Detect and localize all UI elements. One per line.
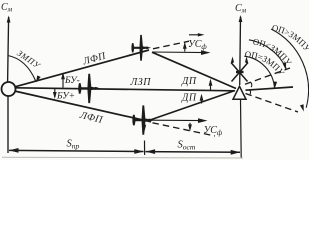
svg-text:ДП: ДП [181, 76, 197, 87]
wire: S boundary tick [144, 141, 146, 156]
wire: right S tick from triangle to baseline [240, 100, 243, 159]
svg-text:БУ-: БУ- [64, 76, 80, 86]
label: OP<ZMPU curved [253, 45, 290, 70]
arc: ZMPU angle arc with arrowhead [8, 56, 36, 81]
wire: lower corrected track plane to triangle [152, 91, 236, 120]
wire: dashed up-right from triangle [245, 68, 290, 84]
dimension: S pr [9, 150, 144, 151]
wire: vertical from circle to baseline [7, 96, 9, 153]
component: upper plane on LFP [131, 35, 151, 61]
wire: lower LFP line from circle to lower plane [15, 91, 152, 122]
svg-text:ЛЗП: ЛЗП [130, 77, 152, 88]
component: aircraft symbol at turn point (X with two arrows) [231, 63, 248, 82]
svg-text:БУ+: БУ+ [56, 92, 75, 102]
annotation: BU+ angle (arrow down to LFP, text, arrow up to LZP) [54, 89, 56, 98]
wire: upper horizontal reference with right arrow [152, 51, 206, 54]
arc: inner turn arc OP=ZMPU [244, 56, 274, 88]
label: OP>ZMPU curved [272, 31, 308, 55]
wire: dashed extension of upper LFP beyond plane [153, 41, 189, 49]
wire: upper corrected track plane to triangle [152, 52, 236, 88]
arc: outer turn arc OP>ZMPU [271, 29, 308, 108]
arrow: upper USf angle arrow [184, 44, 186, 52]
component: plane on LZP [78, 74, 100, 103]
faint scan rule at bottom [2, 156, 243, 159]
arrow: left Cm arrowhead [7, 15, 11, 22]
wire: lower horizontal reference with right arrow [153, 119, 204, 121]
arrow: lower USf angle arrow [189, 123, 191, 130]
wire: horizontal continuation right of triangle [246, 87, 294, 90]
node: destination triangle [233, 86, 246, 99]
node: departure point circle [2, 82, 16, 96]
component: lower plane on LFP [132, 105, 154, 134]
arc: middle turn arc OP<ZMPU [249, 40, 286, 69]
wire: dashed extension of lower LFP beyond plane [153, 123, 216, 136]
arc: small angle arc at triangle right [251, 82, 252, 87]
label: OP=ZMPU curved [245, 57, 279, 74]
wire: left meridian line (Cm) [8, 17, 9, 82]
wire: dashed down-right from triangle with arrow [246, 94, 299, 113]
arrow: drop from lower plane to S boundary tick [143, 123, 145, 130]
wire: upper LFP line from circle to upper plane [15, 50, 150, 87]
label: USf upper with vector arrow [189, 34, 202, 36]
annotation: BU- angle (arrow up to LFP, text, arrow down to LZP) [62, 74, 64, 88]
wire: LZP horizontal line [16, 88, 235, 91]
wire: right meridian Cm [239, 17, 242, 86]
svg-text:ДП: ДП [181, 93, 197, 104]
dimension: S ost [146, 151, 241, 154]
